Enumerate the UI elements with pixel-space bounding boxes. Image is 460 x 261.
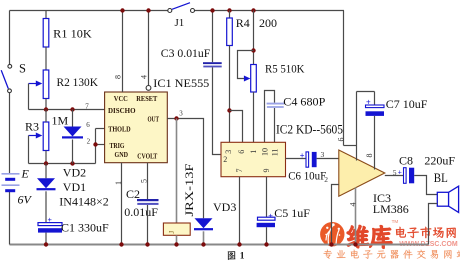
svg-text:2: 2 (87, 137, 91, 145)
wire IC2 pin 7 to ground (239, 177, 241, 245)
svg-text:IN4148×2: IN4148×2 (59, 195, 108, 209)
op-amp timer IC1 NE555 body (105, 92, 168, 163)
svg-text:1: 1 (240, 252, 245, 261)
svg-text:RESET: RESET (136, 95, 157, 103)
svg-text:C3 0.01uF: C3 0.01uF (161, 46, 211, 60)
node R5 wiper junction (251, 48, 255, 52)
amplifier IC3 LM386 (339, 150, 385, 196)
node IC2 pin7 ground junction (237, 242, 241, 246)
svg-text:R1 10K: R1 10K (53, 27, 92, 41)
wire IC1 pin 1 GND (121, 163, 123, 245)
wire lower bus (29, 163, 96, 165)
wire R1 to R2 (45, 47, 47, 70)
potentiometer R2 (29, 70, 49, 99)
svg-text:R2 130K: R2 130K (57, 75, 99, 89)
svg-text:VD1: VD1 (63, 180, 86, 194)
watermark tagline 专业电子元器件交易网站 (323, 250, 460, 259)
node C2 ground junction (145, 242, 149, 246)
node pin1 ground junction (119, 242, 123, 246)
wire VD2 top (72, 110, 74, 127)
svg-text:TRIG: TRIG (110, 142, 125, 150)
wire LM386 pin 6 drop (356, 92, 358, 161)
wire bottom ground rail (10, 244, 429, 246)
relay coil box J (163, 223, 190, 235)
svg-text:DISCHO: DISCHO (108, 107, 136, 115)
wire pins 6-2 tie (95, 129, 97, 164)
node C3 rail junction (210, 8, 214, 12)
node R5 rail junction (251, 8, 255, 12)
diode VD1 (37, 178, 55, 188)
switch S (1, 64, 12, 92)
svg-text:3: 3 (321, 150, 325, 159)
wire LM386 output (385, 175, 404, 177)
svg-text:200: 200 (259, 16, 277, 30)
wire R1 top (45, 11, 47, 19)
svg-text:2: 2 (223, 155, 227, 164)
node pin4 rail junction (146, 8, 150, 12)
node R3 bottom junction (44, 161, 48, 165)
wire VD1 top (45, 164, 47, 179)
svg-text:8: 8 (114, 75, 123, 79)
wire IC1 pin 5 CVOLT (147, 163, 149, 199)
node LM386 pin4 ground junction (353, 242, 357, 246)
node relay branch junction (174, 116, 178, 120)
svg-text:IC2 KD--5605: IC2 KD--5605 (276, 123, 343, 137)
wire C5 to ground (266, 227, 268, 244)
wire relay to ground (176, 235, 178, 244)
svg-text:10: 10 (261, 148, 270, 156)
svg-text:8: 8 (365, 154, 374, 158)
svg-text:+: + (300, 151, 305, 160)
node C5 ground junction (264, 242, 268, 246)
node R4 rail junction (227, 8, 231, 12)
wire left edge bottom (battery to ground rail) (9, 192, 11, 245)
wire C6 to LM386 pin 3 (317, 158, 339, 160)
wire IC1 pin 8 VCC (122, 11, 124, 93)
wire VD1 to C1 (45, 191, 47, 222)
svg-text:+: + (398, 169, 402, 176)
wire pin6 branch (230, 111, 243, 143)
resistor R4 (227, 18, 233, 46)
svg-text:11: 11 (271, 149, 280, 157)
wire left edge (switch S to battery) (9, 93, 11, 174)
wire IC2 pin 9 to C5 (266, 177, 268, 218)
svg-text:J: J (168, 231, 176, 234)
diode VD3 (195, 218, 213, 228)
wire IC2 output to C6 (286, 158, 306, 160)
wire C3 top (212, 11, 214, 63)
wire IC1 pin 3 OUT (167, 119, 203, 219)
resistor R1 (43, 19, 49, 48)
capacitor C7 10uF electrolytic (366, 97, 385, 116)
node LM386 pin2 ground junction (329, 242, 333, 246)
node VD2 anode junction (70, 107, 74, 111)
svg-text:VD2: VD2 (63, 165, 86, 179)
svg-text:LM386: LM386 (373, 202, 409, 216)
speaker BL (437, 186, 458, 212)
svg-text:S: S (19, 61, 26, 75)
svg-text:6: 6 (237, 150, 246, 154)
svg-text:C5 1uF: C5 1uF (274, 206, 310, 220)
svg-text:IC1 NE555: IC1 NE555 (153, 76, 209, 90)
wire LM386 pin 4 to ground (355, 188, 357, 245)
svg-text:C1 330uF: C1 330uF (61, 221, 109, 235)
wire discharge bus to IC1 pin 7 (29, 109, 105, 111)
wire C7 to LM386 pin 8 (374, 116, 376, 170)
wire THOLD stub pin 6 (96, 128, 105, 130)
capacitor C3 (203, 62, 222, 67)
wire top rail left segment (10, 10, 169, 12)
node R2 bottom junction (44, 107, 48, 111)
wire R4 to IC2 pin 3 (229, 46, 231, 143)
node relay ground junction (174, 242, 178, 246)
svg-text:JRX-13F: JRX-13F (182, 163, 196, 216)
svg-text:C8: C8 (399, 153, 413, 167)
svg-text:9: 9 (262, 169, 271, 173)
capacitor C5 1uF electrolytic (257, 211, 275, 227)
wire C3 to IC2 pin 2 (213, 67, 222, 154)
wire LM386 pin 2 input (332, 185, 339, 245)
svg-text:VCC: VCC (114, 95, 128, 103)
svg-text:R4: R4 (236, 16, 250, 30)
node pin8 rail junction (120, 8, 124, 12)
svg-text:C7 10uF: C7 10uF (386, 97, 428, 111)
potentiometer R5 (244, 65, 256, 93)
wire left edge top (rail to switch S) (9, 11, 11, 65)
wire R3 bottom (45, 151, 47, 164)
svg-text:BL: BL (434, 171, 448, 185)
svg-text:E: E (21, 167, 30, 181)
svg-text:1: 1 (249, 150, 258, 154)
wire IC1 pin 4 RESET (148, 11, 150, 86)
battery E 6V (2, 174, 20, 192)
watermark text 电子市场网 (396, 227, 456, 238)
watermark logo circle (dzsc) (320, 222, 344, 246)
svg-text:C4 680P: C4 680P (283, 94, 325, 108)
wire IC2 pin 10 riser (265, 91, 275, 143)
capacitor C6 10uF electrolytic (300, 151, 317, 167)
node pin6 branch junction (227, 108, 231, 112)
svg-text:6V: 6V (18, 193, 33, 207)
wire C1 to ground rail (45, 233, 47, 245)
wire top rail right segment (195, 10, 345, 12)
svg-text:5: 5 (140, 179, 149, 183)
wire VD3 to ground (203, 231, 205, 244)
capacitor C8 220uF electrolytic (404, 168, 415, 184)
svg-text:TM: TM (392, 219, 399, 224)
node VD3 ground junction (201, 242, 205, 246)
svg-text:220uF: 220uF (424, 153, 455, 167)
IC1 pin 4 circle (146, 86, 151, 91)
wire speaker to ground (429, 204, 438, 245)
wire VD2 bottom (72, 140, 74, 164)
wire R3 wiper down (28, 136, 30, 164)
svg-text:2: 2 (324, 175, 328, 184)
diode VD2 (64, 127, 82, 137)
capacitor C2 (137, 199, 159, 205)
svg-text:THOLD: THOLD (108, 125, 131, 133)
node VD2 cathode junction (70, 161, 74, 165)
svg-text:0.01uF: 0.01uF (124, 205, 158, 219)
potentiometer R3 (29, 122, 49, 151)
svg-text:5: 5 (393, 168, 397, 177)
wire relay coil drop (176, 119, 178, 224)
wire C8 to speaker (414, 176, 437, 195)
svg-text:CVOLT: CVOLT (137, 153, 157, 161)
wire right supply drop to LM386 (343, 11, 345, 146)
wire R2 bottom (45, 99, 47, 110)
wire R2 wiper down (28, 84, 30, 110)
wire R5 top (253, 11, 255, 65)
svg-text:4: 4 (349, 203, 358, 207)
switch J1 (168, 3, 195, 13)
svg-text:3: 3 (179, 109, 183, 117)
caption 图1 (228, 251, 245, 261)
wire R5 wiper (238, 51, 254, 79)
node TRIG junction (93, 142, 97, 146)
svg-text:R5 510K: R5 510K (265, 62, 305, 76)
svg-text:3: 3 (224, 150, 233, 154)
svg-text:GND: GND (115, 151, 129, 159)
svg-text:6: 6 (86, 121, 90, 129)
wire supply tick to pin 6 (344, 145, 357, 147)
wire C7 top leg (374, 92, 376, 106)
svg-text:1M: 1M (52, 114, 69, 128)
svg-text:OUT: OUT (148, 115, 160, 123)
svg-text:VD3: VD3 (213, 200, 236, 214)
svg-text:C6 10uF: C6 10uF (288, 168, 326, 182)
svg-text:4: 4 (140, 75, 149, 79)
wire R4 top (229, 11, 231, 19)
wire gain loop top (357, 91, 375, 93)
wire C2 to ground (147, 205, 149, 245)
svg-text:C2: C2 (126, 187, 140, 201)
wire R5 to IC2 pin 1 (253, 92, 255, 142)
sound chip IC2 KD--5605 body (221, 142, 286, 176)
svg-text:1: 1 (114, 181, 123, 185)
capacitor C4 (267, 104, 284, 107)
svg-text:6: 6 (337, 138, 346, 142)
wire bus1 to R3 (45, 110, 47, 123)
wire C4 to IC2 pin 11 (274, 108, 276, 142)
node C1 ground junction (44, 242, 48, 246)
capacitor C1 330uF electrolytic (38, 215, 62, 233)
svg-text:J1: J1 (175, 17, 185, 29)
svg-text:R3: R3 (25, 120, 39, 134)
watermark brand text 维库 (347, 219, 398, 249)
svg-text:7: 7 (85, 102, 89, 110)
svg-text:7: 7 (235, 169, 244, 173)
wire TRIG stub pin 2 (96, 144, 105, 146)
